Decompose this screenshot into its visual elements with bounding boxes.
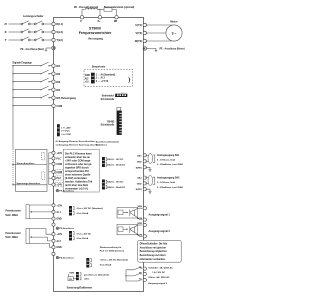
svg-text:S(L2): S(L2) — [56, 30, 63, 34]
terminal COM digital — [52, 104, 55, 107]
svg-text:DI1: DI1 — [56, 65, 61, 68]
svg-text:DI2: DI2 — [56, 73, 61, 76]
terminal P+ — [98, 16, 101, 19]
wire emitter Q1 — [135, 216, 143, 220]
terminal GND DA2 — [143, 182, 146, 185]
terminal DI4 — [52, 88, 55, 91]
jumper J9 bipolar — [86, 258, 91, 268]
svg-text:1 ⇔ AI (Standard): 1 ⇔ AI (Standard) — [96, 73, 115, 76]
svg-text:DA1:0 - 10V DC: DA1:0 - 10V DC — [107, 158, 123, 161]
resistor RB Bremswiderstand — [104, 8, 112, 11]
svg-text:0 bis 20mA: 0 bis 20mA — [100, 263, 112, 266]
optocoupler output Q1 box — [117, 208, 138, 219]
terminal S(L2) — [52, 30, 55, 33]
svg-text:Potentiometer: Potentiometer — [5, 210, 21, 213]
jumper block J4 dashed box — [84, 69, 133, 86]
jumper J10 EMV — [76, 272, 81, 280]
svg-text:0 - 20mA/max. Last 250Ω: 0 - 20mA/max. Last 250Ω — [157, 186, 183, 189]
svg-text:Frequenzumrichter: Frequenzumrichter — [79, 31, 112, 35]
svg-text:2 ⇒ PLC: 2 ⇒ PLC — [61, 130, 70, 133]
terminal V(T2) — [143, 31, 146, 34]
svg-text:Entstörung/Erdklemme: Entstörung/Erdklemme — [67, 287, 93, 290]
svg-text:Anschluss (Standard): Anschluss (Standard) — [96, 140, 119, 143]
wire coil to P+ — [97, 9, 104, 11]
svg-text:DI3: DI3 — [56, 81, 61, 84]
terminal DI2 — [52, 72, 55, 75]
svg-text:TB: TB — [139, 272, 142, 274]
svg-text:EMV: EMV — [70, 272, 75, 274]
inductor L1 DC-Drossel — [86, 8, 98, 9]
meter DA2 — [146, 176, 155, 186]
svg-text:SPA: SPA — [137, 205, 142, 208]
svg-text:W(T3): W(T3) — [135, 39, 142, 43]
motor M1 — [166, 25, 182, 41]
svg-text:+24V: +24V — [56, 152, 62, 155]
svg-text:COM: COM — [137, 218, 142, 220]
svg-text:0 bis +10V DC: 0 bis +10V DC — [77, 233, 92, 235]
svg-text:DA1:0 - 20mA DC: DA1:0 - 20mA DC — [107, 163, 125, 166]
svg-text:Potentiometer: Potentiometer — [5, 232, 21, 235]
svg-text:PLC: PLC — [56, 157, 61, 160]
jumper J5 DA1 — [102, 157, 107, 167]
svg-text:Spannungs-Anschluss: Spannungs-Anschluss — [17, 182, 41, 185]
svg-text:DI5 Pulseingang: DI5 Pulseingang — [56, 97, 76, 100]
svg-text:RB: RB — [114, 21, 118, 23]
wire S — [9, 31, 21, 33]
wire Strom row — [13, 164, 47, 166]
PE marker mid — [56, 189, 75, 192]
svg-text:4-3 Ausgangs-Klemmen Strom-Ans: 4-3 Ausgangs-Klemmen Strom-Anschluss — [56, 140, 97, 143]
terminal +24V — [52, 151, 55, 154]
option dashed box upper — [41, 153, 45, 160]
terminal SPB — [143, 223, 146, 226]
svg-text:1 ⇒ +24V: 1 ⇒ +24V — [61, 126, 71, 129]
terminal P — [80, 16, 83, 19]
wire emitter Q2 — [135, 232, 143, 236]
svg-text:Öffner/Schließer: Die Alle: Öffner/Schließer: Die Alle — [140, 243, 168, 246]
svg-text:Bremswiderstand (optional): Bremswiderstand (optional) — [104, 6, 135, 9]
svg-text:E(PE): E(PE) — [136, 167, 142, 169]
terminal COM Q1 — [143, 218, 146, 221]
svg-text:0 bis 20mA: 0 bis 20mA — [77, 212, 89, 215]
svg-text:COM: COM — [56, 171, 62, 174]
terminal DA2 — [143, 176, 146, 179]
wire P+ down — [99, 10, 101, 16]
svg-text:3 ⇒ COM: 3 ⇒ COM — [61, 133, 71, 136]
svg-text:ST9000: ST9000 — [89, 27, 101, 31]
terminal PE netz — [52, 46, 55, 49]
terminal TB — [143, 272, 146, 275]
svg-text:GND: GND — [56, 246, 62, 249]
junction P+ — [99, 9, 100, 10]
terminal GND DA1 — [143, 160, 146, 163]
svg-text:Steuerkreis: Steuerkreis — [92, 65, 106, 68]
wire collector Q2 — [135, 225, 143, 227]
svg-text:E(PE): E(PE) — [136, 189, 142, 191]
note box PLC text — [63, 149, 99, 192]
stub COM b — [49, 171, 53, 173]
terminal +10V AI1 — [52, 204, 55, 207]
svg-text:5kΩ / 2Watt: 5kΩ / 2Watt — [5, 236, 18, 239]
svg-text:PE - Anschluss (Netz): PE - Anschluss (Netz) — [20, 48, 44, 51]
wire U to motor — [146, 24, 172, 26]
wire T — [9, 39, 21, 41]
svg-text:DA2:0 - 10V DC: DA2:0 - 10V DC — [107, 181, 123, 184]
jumper J8 AI2 — [69, 231, 74, 241]
terminal DA1 — [143, 154, 146, 157]
stub +24V b — [49, 184, 53, 186]
svg-text:Leistungsschalter: Leistungsschalter — [23, 15, 44, 18]
wire COM row — [12, 105, 52, 106]
svg-text:0 bis 20mA: 0 bis 20mA — [77, 237, 89, 240]
ground DA1 — [148, 170, 151, 172]
stub COM — [49, 163, 53, 165]
svg-text:RS485: RS485 — [107, 120, 115, 123]
svg-text:DI4: DI4 — [56, 89, 61, 92]
terminal TC — [143, 278, 146, 281]
wire resistor to RB — [112, 10, 117, 16]
svg-text:Strom-Anschluss: Strom-Anschluss — [17, 162, 36, 165]
meter DA1 — [146, 154, 155, 164]
svg-text:0 - 10V/max. 5mA: 0 - 10V/max. 5mA — [157, 181, 175, 184]
svg-text:Ausgangssignal 3: Ausgangssignal 3 — [148, 282, 168, 285]
wire W to motor — [146, 40, 172, 42]
svg-text:Ausgangssignal 2: Ausgangssignal 2 — [149, 230, 171, 233]
svg-text:Motor: Motor — [170, 19, 177, 23]
terminal PE AI2 — [52, 252, 55, 255]
svg-text:Bezeichnung mitgleicher: Bezeichnung mitgleicher — [140, 250, 167, 253]
svg-text:S: S — [5, 30, 7, 34]
terminal DI5 — [52, 96, 55, 99]
connector X1 keypad — [115, 94, 127, 97]
svg-text:1-2 Ausgangs-Klemmen Spannungs: 1-2 Ausgangs-Klemmen Spannungs-Anschluss — [56, 144, 102, 147]
wire PE netz — [46, 47, 52, 49]
wire collector Q1 — [135, 208, 143, 210]
stub PLC — [49, 157, 53, 159]
svg-text:PE-Anschluss: PE-Anschluss — [59, 190, 74, 193]
PE marker AI1 — [56, 227, 75, 230]
terminal PE AI1 — [52, 223, 55, 226]
svg-text:Digitale Eingänge: Digitale Eingänge — [13, 62, 33, 65]
svg-text:2 ⇔ AI 2: 2 ⇔ AI 2 — [96, 77, 106, 80]
jumper J7 AI1 — [69, 206, 74, 216]
ground DA2 — [148, 192, 151, 194]
external control box — [16, 149, 48, 191]
svg-text:Bedienfeld-: Bedienfeld- — [102, 96, 115, 98]
stub PLC b — [49, 177, 53, 179]
svg-text:3 ~: 3 ~ — [172, 32, 177, 36]
potentiometer RP1 — [5, 205, 52, 219]
wire R — [9, 23, 21, 25]
relay K1 — [125, 267, 142, 281]
svg-text:GND: GND — [85, 75, 90, 77]
ground PE motor — [155, 49, 157, 52]
terminal RB — [115, 16, 118, 19]
svg-text:+24V: +24V — [56, 184, 62, 187]
terminal DI3 — [52, 80, 55, 83]
connector X2 RS485 — [117, 107, 122, 134]
svg-text:AI 2: AI 2 — [56, 240, 61, 243]
terminal R(L1) — [52, 22, 55, 25]
svg-text:0 bis +10V DC (Standard): 0 bis +10V DC (Standard) — [77, 207, 103, 210]
svg-text:Analogausgang DA1: Analogausgang DA1 — [157, 154, 180, 157]
terminal DI1 — [52, 64, 55, 67]
switch S2 DI2 — [12, 70, 52, 74]
svg-text:5kΩ / 2Watt: 5kΩ / 2Watt — [5, 214, 18, 217]
switch S5 DI5 — [12, 94, 52, 98]
svg-text:T(L3): T(L3) — [56, 38, 62, 42]
svg-text:U(T1): U(T1) — [135, 23, 142, 27]
svg-text:AI 1: AI 1 — [56, 211, 61, 214]
terminal W(T3) — [143, 39, 146, 42]
svg-text:Ausgangssignal 1: Ausgangssignal 1 — [149, 213, 171, 216]
switch S3 DI3 — [12, 78, 52, 82]
svg-text:COM: COM — [56, 105, 62, 108]
svg-text:V(T2): V(T2) — [136, 31, 143, 35]
wire DI common vertical — [12, 66, 14, 149]
note box wichtig — [138, 240, 182, 262]
terminal PE motor — [143, 47, 147, 50]
svg-text:COM: COM — [56, 163, 62, 166]
svg-text:DA2: DA2 — [137, 177, 142, 180]
svg-text:Schließer: 3A / 250V AC: Schließer: 3A / 250V AC — [148, 267, 173, 270]
wire PE motor — [146, 48, 156, 50]
svg-text:PE-Anschluss: PE-Anschluss — [59, 257, 74, 260]
potentiometer RP2 — [5, 228, 52, 247]
junction common Strom — [12, 164, 13, 165]
breaker Q1 pole S — [21, 29, 52, 33]
svg-text:GND: GND — [137, 183, 142, 185]
terminal U(T1) — [143, 23, 146, 26]
terminal AI1 — [52, 210, 55, 213]
bus wire vertical — [48, 153, 50, 185]
wire E(PE) DA2 — [146, 189, 151, 191]
svg-text:Schnittstelle: Schnittstelle — [101, 98, 115, 101]
svg-text:+10V: +10V — [56, 233, 62, 236]
svg-text:SPB: SPB — [137, 223, 142, 225]
svg-text:DA1: DA1 — [137, 154, 142, 157]
terminal E(PE) DA2 — [143, 188, 146, 191]
svg-text:PE - Anschluss (Motor): PE - Anschluss (Motor) — [160, 48, 185, 51]
svg-text:Werkseinstellung für: Werkseinstellung für — [100, 246, 122, 249]
junction common Spannung — [12, 184, 13, 185]
terminal COM b — [52, 170, 55, 173]
PE marker AI2 — [56, 256, 75, 259]
terminal PLC — [52, 157, 55, 160]
wire V to motor — [146, 32, 166, 34]
terminal AI2 — [52, 239, 55, 242]
wire Spannung row — [13, 184, 47, 186]
svg-text:PE-Anschluss: PE-Anschluss — [59, 227, 74, 230]
svg-text:- - -: - - - — [121, 92, 124, 94]
inverter main box U1 — [54, 18, 144, 292]
svg-text:Anschlüsse mit gleicher: Anschlüsse mit gleicher — [140, 246, 167, 249]
option dashed box lower — [41, 172, 45, 179]
svg-text:1 A / 30V DC: 1 A / 30V DC — [152, 271, 165, 274]
wire E(PE) DA1 — [146, 167, 151, 169]
svg-text:R(L1): R(L1) — [56, 22, 63, 26]
svg-text:3 ⇔ +V T10: 3 ⇔ +V T10 — [96, 81, 109, 83]
wire P up — [82, 10, 86, 16]
svg-text:+10V: +10V — [56, 204, 62, 207]
ground PE netz — [45, 48, 47, 51]
svg-text:GND: GND — [137, 161, 142, 163]
switch S1 DI1 — [12, 62, 52, 66]
svg-text:Versorgung: Versorgung — [88, 36, 103, 40]
breaker Q1 pole R — [21, 21, 52, 25]
svg-text:miteinander verbunden.: miteinander verbunden. — [140, 258, 166, 261]
svg-text:GND: GND — [56, 218, 62, 221]
terminal TA — [143, 267, 146, 270]
svg-text:PLS 1.0: 290Ω (weitere): PLS 1.0: 290Ω (weitere) — [100, 250, 125, 253]
terminal T(L3) — [52, 38, 55, 41]
svg-text:0 - 10V/max. 5mA: 0 - 10V/max. 5mA — [157, 158, 175, 161]
terminal E(PE) DA1 — [143, 166, 146, 169]
breaker Q1 pole T — [21, 37, 52, 41]
terminal COM control — [52, 162, 55, 165]
connector X3 control pins — [57, 124, 60, 136]
svg-text:PLC: PLC — [56, 177, 61, 180]
terminal +24V b — [52, 183, 55, 186]
jumper J4 pin strip — [91, 73, 95, 84]
terminal SPA — [143, 207, 146, 210]
svg-text:offen: offen — [84, 279, 90, 281]
switch S4 DI4 — [12, 86, 52, 90]
svg-text:Analogausgang DA2: Analogausgang DA2 — [157, 176, 180, 179]
terminal PLC b — [52, 177, 55, 180]
terminal GND AI1 — [52, 217, 55, 220]
svg-text:-10 bis +10V DC (Standard): -10 bis +10V DC (Standard) — [100, 259, 128, 262]
terminal COM Q2 — [143, 235, 146, 238]
svg-text:Bezeichnung und intern: Bezeichnung und intern — [140, 254, 167, 257]
capacitor EMV filter — [68, 274, 76, 281]
svg-text:TC: TC — [139, 278, 142, 280]
svg-text:Schnittstelle: Schnittstelle — [101, 124, 115, 127]
optocoupler output Q2 box — [117, 224, 138, 235]
terminal +10V AI2 — [52, 233, 55, 236]
terminal GND AI2 — [52, 246, 55, 249]
svg-text:COM: COM — [137, 235, 142, 237]
stub +24V — [49, 152, 53, 154]
svg-text:geschlossen (Standard): geschlossen (Standard) — [84, 274, 109, 277]
jumper J6 DA2 — [102, 180, 107, 190]
svg-text:Öffner: 3A / 250V AC: Öffner: 3A / 250V AC — [148, 276, 170, 279]
svg-text:DA2:0 - 20mA DC: DA2:0 - 20mA DC — [107, 186, 125, 189]
svg-text:0 - 20mA/max. Last 250Ω: 0 - 20mA/max. Last 250Ω — [157, 163, 183, 166]
